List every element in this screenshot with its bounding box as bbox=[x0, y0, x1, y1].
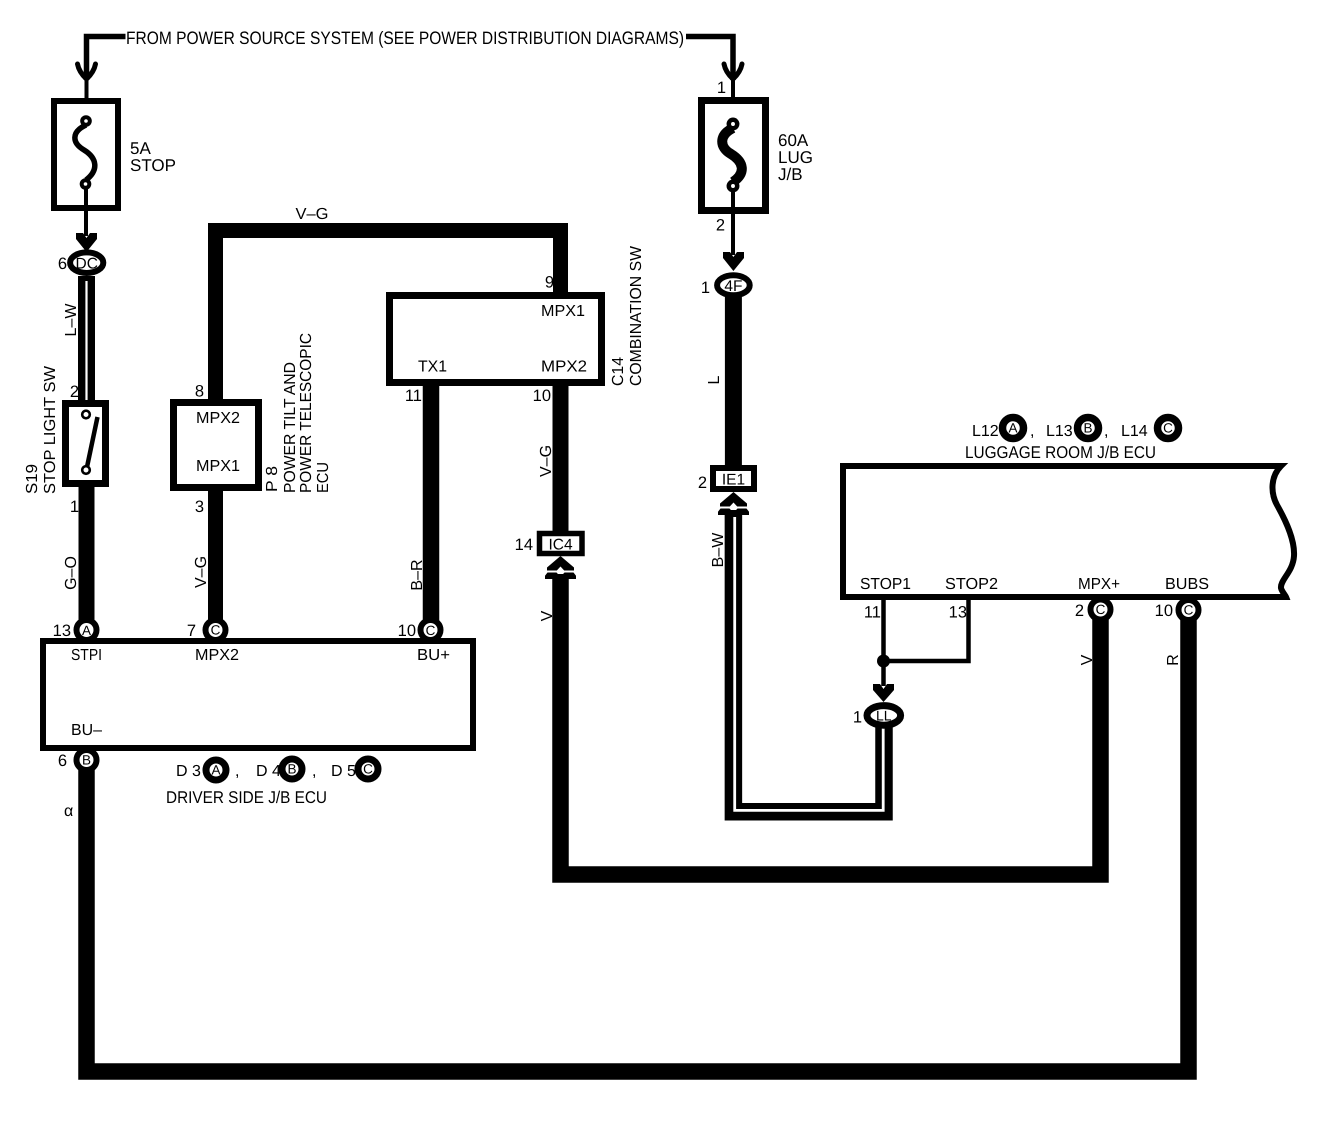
svg-text:STOP1: STOP1 bbox=[860, 576, 911, 593]
svg-text:STOP LIGHT SW: STOP LIGHT SW bbox=[42, 365, 59, 494]
svg-text:MPX2: MPX2 bbox=[541, 359, 587, 376]
svg-text:11: 11 bbox=[864, 604, 881, 622]
wire B-W loop (striped) bbox=[733, 510, 884, 812]
arrow into 60A fuse bbox=[724, 64, 742, 79]
switch contacts bbox=[82, 411, 90, 419]
svg-text:MPX+: MPX+ bbox=[1078, 576, 1120, 593]
arrow into DC bbox=[76, 233, 97, 252]
driver ECU box bbox=[43, 641, 473, 748]
wire fuse to 4F bbox=[731, 190, 735, 255]
svg-text:STPI: STPI bbox=[71, 647, 102, 664]
svg-text:FROM POWER SOURCE SYSTEM (SEE: FROM POWER SOURCE SYSTEM (SEE POWER DIST… bbox=[126, 28, 684, 48]
svg-text:10: 10 bbox=[1155, 602, 1173, 620]
svg-text:R: R bbox=[1165, 654, 1182, 666]
arrow into 5A fuse bbox=[78, 64, 96, 79]
wire L bbox=[725, 297, 742, 467]
svg-text:MPX2: MPX2 bbox=[196, 410, 240, 427]
svg-text:J/B: J/B bbox=[778, 165, 803, 184]
svg-text:8: 8 bbox=[195, 383, 204, 401]
svg-text:POWER TELESCOPIC: POWER TELESCOPIC bbox=[298, 333, 315, 493]
svg-text:2: 2 bbox=[716, 217, 725, 235]
svg-text:V–G: V–G bbox=[193, 556, 210, 588]
svg-text:C14: C14 bbox=[610, 357, 627, 386]
wire STOP1 thin bbox=[881, 598, 886, 686]
svg-text:V–G: V–G bbox=[296, 206, 329, 223]
svg-text:α: α bbox=[64, 803, 73, 820]
svg-text:6: 6 bbox=[58, 255, 67, 273]
svg-text:DRIVER SIDE J/B ECU: DRIVER SIDE J/B ECU bbox=[166, 788, 327, 807]
svg-text:L: L bbox=[706, 375, 723, 384]
svg-text:1: 1 bbox=[701, 279, 710, 297]
wire power feed left bbox=[87, 37, 126, 81]
connector LL bbox=[867, 706, 901, 726]
svg-text:C: C bbox=[426, 623, 436, 638]
fuse 60A element bbox=[722, 128, 742, 182]
fuse 5A element bbox=[75, 125, 95, 180]
svg-text:P 8: P 8 bbox=[264, 466, 281, 492]
svg-text:MPX1: MPX1 bbox=[541, 303, 585, 320]
svg-text:V: V bbox=[1079, 654, 1096, 665]
svg-text:,: , bbox=[235, 763, 239, 780]
wire into 60A fuse bbox=[731, 79, 735, 122]
luggage ECU box bbox=[843, 466, 1294, 597]
connector IC4 bbox=[540, 534, 583, 554]
svg-text:LUGGAGE ROOM J/B ECU: LUGGAGE ROOM J/B ECU bbox=[965, 443, 1156, 462]
svg-text:STOP2: STOP2 bbox=[945, 576, 998, 593]
svg-text:4F: 4F bbox=[724, 278, 742, 295]
svg-text:STOP: STOP bbox=[130, 156, 176, 175]
svg-text:1: 1 bbox=[717, 79, 726, 97]
svg-text:C: C bbox=[1096, 602, 1106, 617]
svg-text:10: 10 bbox=[533, 387, 551, 405]
svg-text:B–W: B–W bbox=[710, 532, 727, 568]
svg-text:IE1: IE1 bbox=[722, 471, 745, 488]
svg-text:A: A bbox=[1008, 421, 1017, 436]
arrow into 4F bbox=[723, 252, 744, 271]
svg-text:B: B bbox=[1083, 421, 1092, 436]
wire L-W (striped) bbox=[78, 276, 95, 403]
svg-text:V: V bbox=[539, 610, 556, 621]
svg-text:7: 7 bbox=[187, 622, 196, 640]
svg-text:MPX2: MPX2 bbox=[195, 647, 239, 664]
fuse 5A (box) bbox=[54, 101, 118, 208]
svg-text:G–O: G–O bbox=[63, 556, 80, 590]
wire bottom loop bbox=[87, 618, 1189, 1072]
svg-text:D 4: D 4 bbox=[256, 763, 281, 780]
svg-text:6: 6 bbox=[58, 752, 67, 770]
svg-text:DC: DC bbox=[76, 255, 98, 272]
connector 4F bbox=[717, 275, 750, 295]
svg-text:L12: L12 bbox=[972, 423, 999, 440]
wire V long bbox=[561, 574, 1101, 875]
wire V-G P8 bbox=[208, 491, 223, 622]
svg-text:MPX1: MPX1 bbox=[196, 458, 240, 475]
svg-text:BU+: BU+ bbox=[417, 647, 450, 664]
svg-text:BUBS: BUBS bbox=[1165, 576, 1209, 593]
switch S19 box bbox=[66, 404, 106, 484]
svg-text:14: 14 bbox=[515, 536, 533, 554]
svg-text:D 5: D 5 bbox=[331, 763, 356, 780]
fuse 60A box bbox=[702, 101, 766, 211]
wire B-R bbox=[423, 386, 440, 622]
wire V-G to IC4 bbox=[553, 386, 569, 533]
svg-text:D 3: D 3 bbox=[176, 763, 201, 780]
svg-text:C: C bbox=[363, 762, 373, 777]
wire G-O bbox=[79, 487, 95, 622]
svg-text:LL: LL bbox=[876, 708, 892, 724]
svg-text:B: B bbox=[82, 753, 91, 768]
svg-text:ECU: ECU bbox=[315, 462, 332, 493]
svg-text:9: 9 bbox=[545, 274, 554, 292]
svg-text:2: 2 bbox=[1075, 602, 1084, 620]
arrow into IE1 bbox=[720, 492, 747, 507]
svg-text:C: C bbox=[211, 623, 221, 638]
svg-text:A: A bbox=[82, 623, 91, 638]
connector IE1 bbox=[713, 468, 754, 489]
wire into fuse bbox=[85, 79, 89, 118]
svg-text:,: , bbox=[1030, 423, 1034, 440]
svg-text:TX1: TX1 bbox=[418, 359, 447, 376]
svg-text:1: 1 bbox=[70, 498, 79, 516]
svg-text:11: 11 bbox=[405, 387, 422, 405]
svg-text:B–R: B–R bbox=[409, 559, 426, 590]
svg-text:POWER TILT AND: POWER TILT AND bbox=[282, 362, 299, 493]
svg-text:,: , bbox=[1104, 423, 1108, 440]
wire fuse to DC bbox=[84, 188, 88, 236]
wire V-G loop top bbox=[216, 231, 561, 401]
arrow into LL bbox=[873, 684, 894, 702]
svg-text:L–W: L–W bbox=[63, 303, 80, 337]
svg-text:13: 13 bbox=[949, 604, 967, 622]
switch blade bbox=[87, 417, 98, 467]
svg-text:S19: S19 bbox=[24, 464, 41, 494]
svg-text:V–G: V–G bbox=[538, 445, 555, 477]
svg-text:C: C bbox=[1163, 421, 1173, 436]
svg-text:3: 3 bbox=[195, 498, 204, 516]
svg-text:1: 1 bbox=[853, 709, 862, 727]
svg-text:B: B bbox=[287, 762, 296, 777]
junction dot bbox=[877, 655, 890, 668]
connector DC bbox=[70, 252, 103, 273]
wire power feed right bbox=[686, 37, 733, 81]
ECU P8 box bbox=[174, 403, 259, 488]
wire STOP2 thin bbox=[884, 598, 969, 661]
svg-text:IC4: IC4 bbox=[548, 536, 573, 553]
svg-text:L13: L13 bbox=[1046, 423, 1073, 440]
svg-text:2: 2 bbox=[698, 474, 707, 492]
svg-text:L14: L14 bbox=[1121, 423, 1148, 440]
arrow from IC4 bbox=[547, 556, 574, 571]
svg-text:10: 10 bbox=[398, 622, 416, 640]
svg-text:BU–: BU– bbox=[71, 722, 102, 739]
svg-text:A: A bbox=[211, 763, 220, 778]
svg-text:C: C bbox=[1184, 603, 1194, 618]
svg-text:COMBINATION SW: COMBINATION SW bbox=[628, 245, 645, 386]
combination sw C14 box bbox=[390, 296, 602, 383]
svg-text:,: , bbox=[312, 763, 316, 780]
svg-text:13: 13 bbox=[53, 622, 71, 640]
svg-text:2: 2 bbox=[70, 383, 79, 401]
